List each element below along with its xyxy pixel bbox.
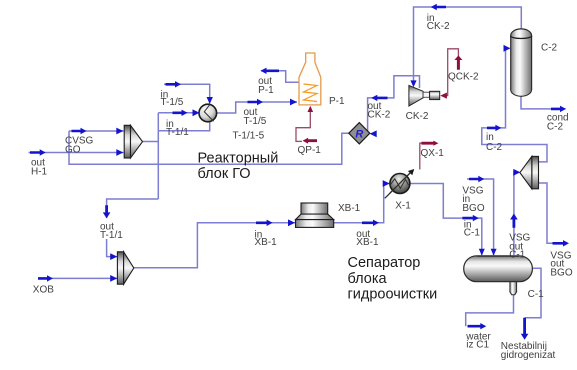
svg-text:T-1/1: T-1/1 <box>100 230 123 241</box>
svg-text:C-1: C-1 <box>528 289 545 300</box>
svg-text:X-1: X-1 <box>395 200 411 211</box>
svg-text:C-2: C-2 <box>486 142 503 153</box>
svg-text:gidrogenizat: gidrogenizat <box>501 350 556 361</box>
svg-text:T-1/5: T-1/5 <box>244 116 267 127</box>
svg-text:Сепаратор: Сепаратор <box>348 255 421 271</box>
svg-text:P-1: P-1 <box>329 96 345 107</box>
svg-text:XB-1: XB-1 <box>356 237 379 248</box>
svg-text:CK-2: CK-2 <box>406 111 429 122</box>
svg-text:блока: блока <box>348 271 388 287</box>
svg-text:XB-1: XB-1 <box>255 237 278 248</box>
svg-text:Реакторный: Реакторный <box>198 150 279 166</box>
svg-text:гидроочистки: гидроочистки <box>348 286 438 302</box>
svg-text:BGO: BGO <box>550 268 572 279</box>
svg-text:CK-2: CK-2 <box>427 21 450 32</box>
svg-text:H-1: H-1 <box>31 167 48 178</box>
svg-text:QP-1: QP-1 <box>298 145 322 156</box>
svg-text:XOB: XOB <box>33 284 54 295</box>
svg-text:C-2: C-2 <box>547 122 564 133</box>
svg-text:QCK-2: QCK-2 <box>448 72 479 83</box>
svg-text:XB-1: XB-1 <box>338 203 361 214</box>
svg-text:C-2: C-2 <box>541 43 558 54</box>
svg-text:P-1: P-1 <box>258 85 274 96</box>
svg-text:CK-2: CK-2 <box>368 110 391 121</box>
svg-text:R: R <box>355 129 363 141</box>
svg-text:C-1: C-1 <box>509 249 526 260</box>
svg-text:T-1/1-5: T-1/1-5 <box>233 131 265 142</box>
svg-text:T-1/5: T-1/5 <box>161 97 184 108</box>
svg-text:GO: GO <box>65 145 81 156</box>
svg-text:QX-1: QX-1 <box>421 148 445 159</box>
svg-text:T-1/1: T-1/1 <box>166 127 189 138</box>
svg-text:блок ГО: блок ГО <box>198 166 251 182</box>
svg-text:BGO: BGO <box>462 203 484 214</box>
svg-text:C-1: C-1 <box>464 228 481 239</box>
svg-text:iz C1: iz C1 <box>466 340 489 351</box>
